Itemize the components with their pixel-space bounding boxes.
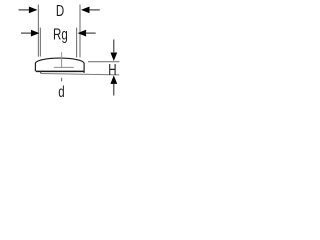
svg-text:H: H [108,60,116,78]
dimension D arrowhead left [29,7,38,14]
part body outline (dome top and sides) [35,58,84,73]
svg-text:d: d [58,82,64,100]
extension line Rg left [39,28,41,57]
part rim line [54,66,74,68]
dimension H tail top [113,40,115,53]
dimension H arrowhead down [110,53,117,62]
svg-text:D: D [56,1,64,19]
d leader line upper segment [61,52,63,67]
dimension Rg arrowhead left [31,30,40,37]
extension line D left [37,5,39,57]
dimension D arrowhead right [81,7,90,14]
extension line D right [79,5,81,58]
dimension D tail left [19,9,30,11]
extension line Rg right [76,28,78,58]
dimension Rg arrowhead right [78,30,87,37]
dimension Rg tail left [21,32,31,34]
dimension D tail right [89,9,100,11]
dimension Rg tail right [86,32,96,34]
H top extension line [88,61,119,63]
dimension H arrowhead up [110,75,117,84]
d leader line lower dash [61,78,63,82]
dimension H tail bottom [113,84,115,96]
part bottom edge [36,70,84,72]
part bottom step left [40,71,42,73]
part lower base edge and H bottom extension line [41,74,120,75]
svg-text:Rg: Rg [53,24,68,42]
